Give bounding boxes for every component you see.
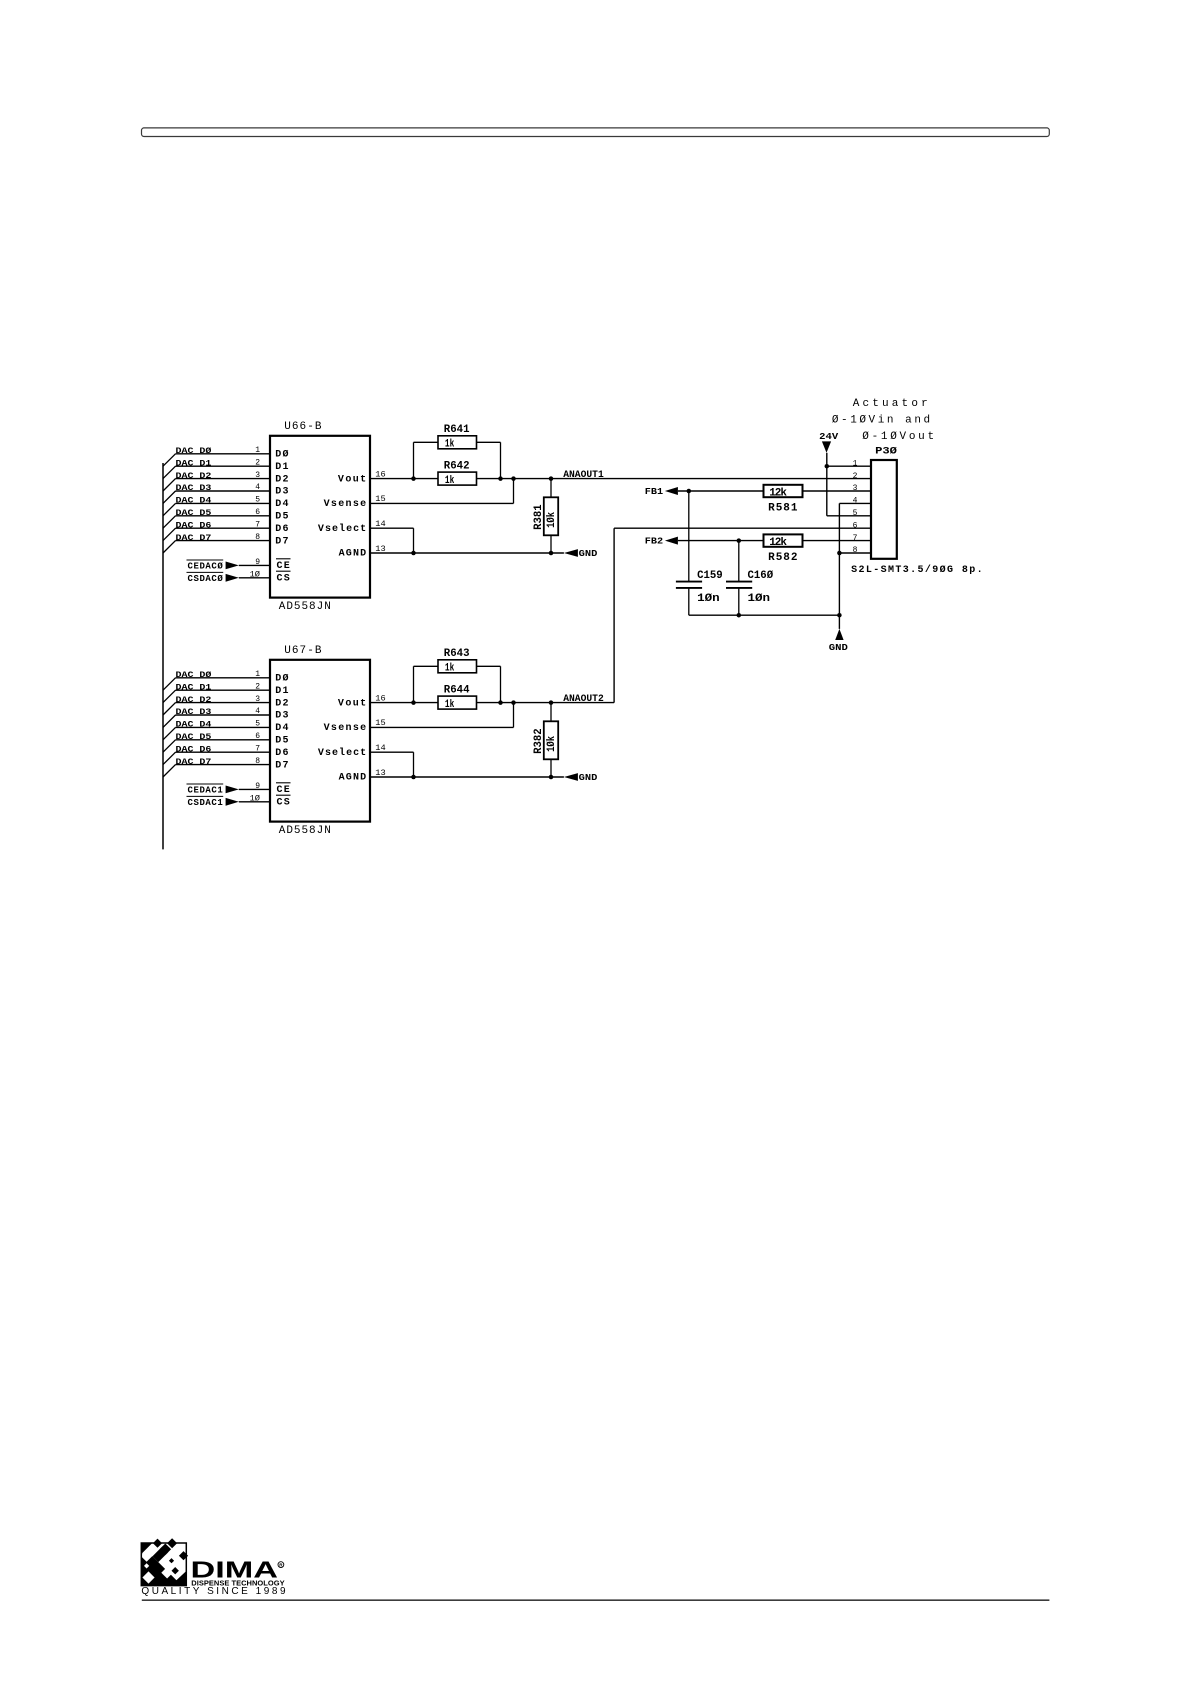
svg-text:8: 8 bbox=[255, 533, 260, 542]
label R582 bbox=[768, 552, 797, 564]
net label CSDAC&#216; with overbar bbox=[187, 572, 224, 584]
svg-text:DAC_D4: DAC_D4 bbox=[176, 497, 212, 506]
annotation: Actuator bbox=[853, 398, 928, 410]
wire CSDAC&#216; to U66-B bbox=[239, 577, 270, 579]
pin name Vout of U66-B bbox=[338, 474, 366, 485]
svg-text:CEDACØ: CEDACØ bbox=[188, 562, 224, 572]
pin name CE (active low) of U66-B bbox=[276, 559, 291, 572]
supply label 24V bbox=[819, 431, 838, 442]
net label FB2 bbox=[645, 537, 663, 547]
wire CEDAC1 to U67-B bbox=[239, 788, 270, 790]
pin name D1 of U67-B bbox=[275, 686, 288, 697]
svg-text:1: 1 bbox=[255, 670, 260, 679]
wire net DAC_D5 to U67-B pin 6 bbox=[176, 739, 271, 741]
junction dot FB2 / C160 bbox=[737, 538, 742, 543]
pin name D4 of U67-B bbox=[275, 723, 288, 734]
GND rail wire under capacitors bbox=[689, 614, 840, 616]
pin number 7 of U67-B bbox=[255, 744, 260, 753]
net label DAC_D0 bbox=[176, 447, 212, 456]
pin number 3 of U66-B bbox=[255, 471, 260, 480]
svg-text:9: 9 bbox=[255, 782, 260, 791]
svg-text:R642: R642 bbox=[444, 460, 470, 472]
wire net FB1 from P30 pin 3 bbox=[678, 490, 871, 492]
resistor R643 1k bbox=[438, 660, 477, 673]
svg-text:DAC_D7: DAC_D7 bbox=[176, 534, 212, 543]
svg-text:P3Ø: P3Ø bbox=[875, 445, 897, 457]
wire net DAC_D1 to U67-B pin 2 bbox=[176, 689, 271, 691]
wire net FB2 from P30 pin 7 bbox=[678, 540, 871, 542]
net label DAC_D6 bbox=[176, 745, 212, 754]
svg-text:DAC_D2: DAC_D2 bbox=[176, 696, 212, 705]
pin name Vsense of U67-B bbox=[324, 723, 367, 734]
svg-text:R644: R644 bbox=[444, 684, 470, 696]
svg-text:R381: R381 bbox=[533, 504, 545, 530]
label C160 bbox=[748, 570, 774, 582]
label R381 bbox=[533, 504, 545, 530]
wire net DAC_D6 to U66-B pin 7 bbox=[176, 527, 271, 529]
pin number 5 of U66-B bbox=[255, 496, 260, 505]
svg-text:1: 1 bbox=[255, 446, 260, 455]
IC U66-B value label AD558JN bbox=[279, 601, 331, 613]
24V supply arrow symbol bbox=[822, 441, 831, 452]
pin number 4 of U67-B bbox=[255, 707, 260, 716]
svg-text:DAC_D1: DAC_D1 bbox=[176, 459, 212, 468]
svg-text:7: 7 bbox=[255, 520, 260, 529]
bus entry diagonals for U67-B data wires bbox=[163, 678, 176, 777]
value 1k of R643 bbox=[445, 662, 455, 674]
connector P30 body bbox=[871, 460, 897, 559]
wire risers connecting R641 in parallel bbox=[414, 442, 501, 478]
svg-text:DØ: DØ bbox=[275, 673, 288, 685]
svg-text:CE: CE bbox=[277, 561, 290, 572]
FB2 net arrow bbox=[665, 537, 678, 545]
GND net label at U67-B AGND bbox=[579, 773, 598, 783]
pin number 9 of U67-B bbox=[255, 782, 260, 791]
svg-text:CS: CS bbox=[277, 798, 290, 809]
svg-text:D3: D3 bbox=[275, 711, 288, 722]
label R382 bbox=[533, 728, 545, 754]
wire net DAC_D2 to U67-B pin 3 bbox=[176, 702, 271, 704]
svg-text:Vout: Vout bbox=[338, 474, 366, 485]
svg-text:4: 4 bbox=[853, 497, 858, 506]
wire risers for R381 between ANAOUT1 and AGND bbox=[550, 479, 552, 553]
junction dot FB1 / C159 bbox=[687, 489, 692, 494]
pin number 13 of U67-B bbox=[375, 769, 386, 778]
svg-text:DAC_D3: DAC_D3 bbox=[176, 708, 212, 717]
svg-text:1Øn: 1Øn bbox=[697, 593, 720, 605]
pin number 3 of U67-B bbox=[255, 695, 260, 704]
svg-text:CSDAC1: CSDAC1 bbox=[188, 798, 224, 808]
pin name Vout of U67-B bbox=[338, 698, 366, 709]
svg-text:6: 6 bbox=[255, 732, 260, 741]
pin number 15 of U66-B bbox=[375, 495, 386, 504]
bus entry diagonals for U66-B data wires bbox=[163, 454, 176, 553]
pin number 1 of U66-B bbox=[255, 446, 260, 455]
wire 24V supply to P30 pins 1,5 bbox=[827, 453, 871, 516]
svg-text:ANAOUT2: ANAOUT2 bbox=[563, 694, 604, 705]
svg-text:3: 3 bbox=[853, 484, 858, 493]
value 1&#216;n of C160 bbox=[748, 593, 771, 605]
wire risers for R382 between ANAOUT2 and AGND bbox=[550, 703, 552, 777]
svg-text:DAC_D6: DAC_D6 bbox=[176, 521, 212, 530]
capacitor C160 10n (FB2 to GND rail) bbox=[726, 541, 752, 616]
svg-text:QUALITY SINCE 1989: QUALITY SINCE 1989 bbox=[141, 1586, 286, 1597]
pin number 7 of P30 bbox=[853, 534, 858, 543]
value 1k of R642 bbox=[445, 475, 455, 487]
pin number 6 of P30 bbox=[853, 521, 858, 530]
GND net arrow at U66-B AGND bbox=[564, 549, 578, 557]
svg-text:7: 7 bbox=[255, 744, 260, 753]
GND net arrow at U67-B AGND bbox=[564, 773, 578, 781]
svg-text:GND: GND bbox=[579, 549, 598, 559]
input arrow for CSDAC&#216; bbox=[226, 574, 239, 582]
net label DAC_D3 bbox=[176, 484, 212, 493]
registered trademark symbol bbox=[278, 1562, 284, 1568]
wire CEDAC&#216; to U66-B bbox=[239, 564, 270, 566]
wire U67-B AGND to GND bbox=[370, 776, 564, 778]
svg-text:Vselect: Vselect bbox=[318, 747, 366, 759]
junction dots on ANAOUT1 wire bbox=[411, 476, 553, 481]
net label DAC_D0 bbox=[176, 671, 212, 680]
svg-text:C159: C159 bbox=[697, 570, 723, 582]
resistor R641 1k bbox=[438, 436, 477, 449]
pin number 2 of U67-B bbox=[255, 682, 260, 691]
annotation: 0-10Vout bbox=[862, 431, 934, 443]
annotation: 0-10Vin and bbox=[832, 415, 930, 427]
net label DAC_D1 bbox=[176, 459, 212, 468]
svg-text:U67-B: U67-B bbox=[284, 645, 322, 657]
svg-text:R581: R581 bbox=[768, 502, 798, 514]
wire net DAC_D0 to U66-B pin 1 bbox=[176, 453, 271, 455]
svg-text:AD558JN: AD558JN bbox=[279, 601, 331, 613]
svg-text:3: 3 bbox=[255, 471, 260, 480]
svg-text:DAC_D5: DAC_D5 bbox=[176, 733, 212, 742]
net label CEDAC1 with overbar bbox=[187, 784, 224, 796]
capacitor C159 10n (FB1 to GND rail) bbox=[676, 491, 702, 615]
net label DAC_D1 bbox=[176, 683, 212, 692]
data bus DAC_D[0..7] vertical bus line bbox=[162, 463, 164, 849]
svg-text:D5: D5 bbox=[275, 512, 288, 523]
svg-text:Ø-1ØVin and: Ø-1ØVin and bbox=[832, 415, 930, 427]
pin name Vselect of U67-B bbox=[318, 747, 366, 759]
svg-text:DAC_DØ: DAC_DØ bbox=[176, 671, 212, 680]
footer rule bbox=[142, 1599, 1050, 1601]
svg-text:6: 6 bbox=[255, 508, 260, 517]
svg-text:Vsense: Vsense bbox=[324, 499, 367, 510]
pin number 1 of U67-B bbox=[255, 670, 260, 679]
svg-text:1Ø: 1Ø bbox=[250, 794, 261, 803]
connector label P30 bbox=[875, 445, 897, 457]
pin number 6 of U67-B bbox=[255, 732, 260, 741]
net label DAC_D4 bbox=[176, 721, 212, 730]
svg-text:DAC_D6: DAC_D6 bbox=[176, 745, 212, 754]
IC U67-B name label bbox=[284, 645, 322, 657]
wire net DAC_D7 to U67-B pin 8 bbox=[176, 764, 271, 766]
pin number 13 of U66-B bbox=[375, 545, 386, 554]
svg-text:7: 7 bbox=[853, 534, 858, 543]
svg-text:Ø-1ØVout: Ø-1ØVout bbox=[862, 431, 934, 443]
wire net ANAOUT1 from U66-B Vout bbox=[370, 478, 871, 480]
svg-text:D5: D5 bbox=[275, 736, 288, 747]
svg-text:GND: GND bbox=[579, 773, 598, 783]
svg-text:DAC_D4: DAC_D4 bbox=[176, 721, 212, 730]
wire GND riser: P30 pins 4,8 to GND symbol bbox=[839, 503, 871, 629]
svg-text:D7: D7 bbox=[275, 536, 288, 547]
wire net DAC_D6 to U67-B pin 7 bbox=[176, 751, 271, 753]
svg-text:8: 8 bbox=[853, 546, 858, 555]
net label DAC_D7 bbox=[176, 534, 212, 543]
svg-text:1k: 1k bbox=[445, 475, 455, 487]
svg-text:2: 2 bbox=[255, 682, 260, 691]
pin name AGND of U67-B bbox=[339, 773, 367, 784]
pin name D3 of U66-B bbox=[275, 487, 288, 498]
wire U66-B Vselect to AGND net bbox=[370, 528, 414, 553]
pin name D2 of U67-B bbox=[275, 698, 288, 709]
svg-text:R641: R641 bbox=[444, 424, 470, 436]
pin name D0 of U66-B bbox=[275, 449, 288, 461]
wire net DAC_D3 to U66-B pin 4 bbox=[176, 490, 271, 492]
pin number 4 of P30 bbox=[853, 497, 858, 506]
pin name AGND of U66-B bbox=[339, 549, 367, 560]
svg-text:R582: R582 bbox=[768, 552, 797, 564]
svg-text:8: 8 bbox=[255, 757, 260, 766]
svg-text:D1: D1 bbox=[275, 462, 288, 473]
pin name D6 of U66-B bbox=[275, 524, 288, 535]
svg-text:DAC_D1: DAC_D1 bbox=[176, 683, 212, 692]
svg-text:D2: D2 bbox=[275, 698, 288, 709]
svg-text:CE: CE bbox=[277, 785, 290, 796]
svg-text:D3: D3 bbox=[275, 487, 288, 498]
svg-text:D4: D4 bbox=[275, 499, 288, 510]
pin number 5 of U67-B bbox=[255, 720, 260, 729]
value 1k of R644 bbox=[445, 699, 455, 711]
junction dots on AGND wire bbox=[411, 551, 553, 556]
svg-text:D2: D2 bbox=[275, 474, 288, 485]
svg-text:AD558JN: AD558JN bbox=[279, 825, 331, 837]
FB1 net arrow bbox=[665, 487, 678, 495]
net label CEDAC&#216; with overbar bbox=[187, 560, 224, 572]
pin name D6 of U67-B bbox=[275, 748, 288, 759]
net label ANAOUT2 bbox=[563, 694, 604, 705]
input arrow for CEDAC1 bbox=[226, 786, 239, 794]
value 12k of R581 bbox=[769, 487, 787, 499]
pin number 1&#216; of U66-B bbox=[250, 570, 261, 579]
svg-text:4: 4 bbox=[255, 707, 260, 716]
pin name D5 of U67-B bbox=[275, 736, 288, 747]
resistor R382 10k bbox=[544, 721, 558, 759]
net label CSDAC1 with overbar bbox=[187, 796, 224, 808]
svg-text:CEDAC1: CEDAC1 bbox=[188, 786, 224, 796]
connector type label S2L-SMT3.5/90G 8p. bbox=[851, 564, 983, 576]
GND net label at U66-B AGND bbox=[579, 549, 598, 559]
svg-text:DAC_D3: DAC_D3 bbox=[176, 484, 212, 493]
net label DAC_D5 bbox=[176, 733, 212, 742]
pin number 2 of U66-B bbox=[255, 458, 260, 467]
junction dot P30 pin 8 / GND riser bbox=[837, 551, 842, 556]
svg-text:R382: R382 bbox=[533, 728, 545, 754]
svg-text:R643: R643 bbox=[444, 648, 470, 660]
DIMA slogan QUALITY SINCE 1989 bbox=[141, 1586, 286, 1597]
net label DAC_D2 bbox=[176, 696, 212, 705]
value 1&#216;n of C159 bbox=[697, 593, 720, 605]
svg-text:5: 5 bbox=[255, 720, 260, 729]
pin number 4 of U66-B bbox=[255, 483, 260, 492]
svg-text:12k: 12k bbox=[769, 487, 787, 499]
svg-text:4: 4 bbox=[255, 483, 260, 492]
svg-text:DAC_D7: DAC_D7 bbox=[176, 758, 212, 767]
wire net DAC_D0 to U67-B pin 1 bbox=[176, 677, 271, 679]
junction dot P30 pin 1 / 24V riser bbox=[825, 464, 830, 469]
svg-text:FB2: FB2 bbox=[645, 537, 663, 547]
svg-text:DØ: DØ bbox=[275, 449, 288, 461]
IC U66-B (upper DAC) body bbox=[270, 436, 370, 598]
pin number 14 of U67-B bbox=[375, 744, 386, 753]
pin name Vsense of U66-B bbox=[324, 499, 367, 510]
net label DAC_D3 bbox=[176, 708, 212, 717]
net label DAC_D7 bbox=[176, 758, 212, 767]
svg-text:1k: 1k bbox=[445, 699, 455, 711]
svg-text:U66-B: U66-B bbox=[284, 421, 322, 433]
junction dots on GND rail bbox=[737, 613, 842, 618]
net label ANAOUT1 bbox=[563, 470, 604, 481]
resistor R381 10k bbox=[544, 497, 558, 535]
pin number 8 of U67-B bbox=[255, 757, 260, 766]
svg-text:D1: D1 bbox=[275, 686, 288, 697]
svg-text:Actuator: Actuator bbox=[853, 398, 928, 410]
svg-text:6: 6 bbox=[853, 521, 858, 530]
input arrow for CSDAC1 bbox=[226, 798, 239, 806]
pin number 8 of U66-B bbox=[255, 533, 260, 542]
resistor R642 1k (series in ANAOUT1) bbox=[438, 472, 477, 485]
DIMA tagline DISPENSE TECHNOLOGY bbox=[191, 1578, 284, 1587]
wire CSDAC1 to U67-B bbox=[239, 801, 270, 803]
svg-text:CSDACØ: CSDACØ bbox=[188, 574, 224, 584]
pin number 5 of P30 bbox=[853, 509, 858, 518]
wire net DAC_D3 to U67-B pin 4 bbox=[176, 714, 271, 716]
label R644 bbox=[444, 684, 470, 696]
svg-text:Vout: Vout bbox=[338, 698, 366, 709]
DIMA wordmark bbox=[191, 1557, 279, 1583]
svg-text:1Øn: 1Øn bbox=[748, 593, 771, 605]
svg-text:1: 1 bbox=[853, 459, 858, 468]
svg-text:1Øk: 1Øk bbox=[546, 736, 558, 752]
pin number 1 of P30 bbox=[853, 459, 858, 468]
svg-text:Vselect: Vselect bbox=[318, 523, 366, 535]
svg-text:5: 5 bbox=[255, 496, 260, 505]
header rule bar bbox=[142, 128, 1050, 137]
input arrow for CEDAC&#216; bbox=[226, 562, 239, 570]
pin number 2 of P30 bbox=[853, 472, 858, 481]
pin name D4 of U66-B bbox=[275, 499, 288, 510]
svg-text:S2L-SMT3.5/9ØG 8p.: S2L-SMT3.5/9ØG 8p. bbox=[851, 564, 983, 576]
svg-text:9: 9 bbox=[255, 558, 260, 567]
label R581 bbox=[768, 502, 798, 514]
value 1&#216;k of R381 bbox=[546, 512, 558, 528]
wire risers connecting R643 in parallel bbox=[414, 666, 501, 702]
svg-text:FB1: FB1 bbox=[645, 487, 664, 497]
wire net DAC_D4 to U67-B pin 5 bbox=[176, 726, 271, 728]
net label DAC_D6 bbox=[176, 521, 212, 530]
net label DAC_D4 bbox=[176, 497, 212, 506]
svg-text:DAC_D5: DAC_D5 bbox=[176, 509, 212, 518]
pin number 8 of P30 bbox=[853, 546, 858, 555]
svg-text:ANAOUT1: ANAOUT1 bbox=[563, 470, 604, 481]
label C159 bbox=[697, 570, 723, 582]
svg-text:D4: D4 bbox=[275, 723, 288, 734]
svg-text:1k: 1k bbox=[445, 662, 455, 674]
pin number 1&#216; of U67-B bbox=[250, 794, 261, 803]
label R641 bbox=[444, 424, 470, 436]
ground symbol GND bbox=[835, 629, 843, 640]
wire net DAC_D5 to U66-B pin 6 bbox=[176, 515, 271, 517]
svg-text:AGND: AGND bbox=[339, 773, 367, 784]
pin name D2 of U66-B bbox=[275, 474, 288, 485]
wire net DAC_D7 to U66-B pin 8 bbox=[176, 540, 271, 542]
wire U67-B Vselect to AGND net bbox=[370, 752, 414, 777]
resistor R581 12k (series in FB1) bbox=[764, 485, 803, 497]
value 1&#216;k of R382 bbox=[546, 736, 558, 752]
pin number 7 of U66-B bbox=[255, 520, 260, 529]
svg-text:D6: D6 bbox=[275, 524, 288, 535]
wire U66-B Vsense feedback to ANAOUT1 bbox=[370, 479, 514, 504]
wire net DAC_D4 to U66-B pin 5 bbox=[176, 502, 271, 504]
svg-text:CS: CS bbox=[277, 574, 290, 585]
svg-text:D7: D7 bbox=[275, 760, 288, 771]
svg-text:5: 5 bbox=[853, 509, 858, 518]
wire net DAC_D1 to U66-B pin 2 bbox=[176, 465, 271, 467]
wire U66-B AGND to GND bbox=[370, 552, 564, 554]
net label FB1 bbox=[645, 487, 664, 497]
IC U67-B (lower DAC) body bbox=[270, 660, 370, 822]
svg-text:3: 3 bbox=[255, 695, 260, 704]
svg-text:1Ø: 1Ø bbox=[250, 570, 261, 579]
svg-text:Vsense: Vsense bbox=[324, 723, 367, 734]
pin name D0 of U67-B bbox=[275, 673, 288, 685]
wire U67-B Vsense feedback to ANAOUT2 bbox=[370, 703, 514, 728]
net label DAC_D2 bbox=[176, 472, 212, 481]
resistor R644 1k (series in ANAOUT2) bbox=[438, 696, 477, 709]
junction dots on ANAOUT2 wire bbox=[411, 700, 553, 705]
svg-text:GND: GND bbox=[829, 643, 849, 653]
resistor R582 12k (series in FB2) bbox=[764, 534, 803, 546]
wire net ANAOUT2 from U67-B Vout bbox=[370, 702, 614, 704]
svg-text:1Øk: 1Øk bbox=[546, 512, 558, 528]
ground label GND bbox=[829, 643, 849, 653]
svg-text:2: 2 bbox=[255, 458, 260, 467]
IC U66-B name label bbox=[284, 421, 322, 433]
pin name D7 of U67-B bbox=[275, 760, 288, 771]
net label DAC_D5 bbox=[176, 509, 212, 518]
pin name D1 of U66-B bbox=[275, 462, 288, 473]
pin number 9 of U66-B bbox=[255, 558, 260, 567]
pin name Vselect of U66-B bbox=[318, 523, 366, 535]
svg-text:24V: 24V bbox=[819, 431, 838, 442]
svg-text:12k: 12k bbox=[769, 537, 787, 549]
label R642 bbox=[444, 460, 470, 472]
IC U67-B value label AD558JN bbox=[279, 825, 331, 837]
svg-text:2: 2 bbox=[853, 472, 858, 481]
wire net ANAOUT2 riser to P30 pin 6 bbox=[614, 528, 871, 702]
svg-text:1k: 1k bbox=[445, 438, 455, 450]
pin number 16 of U67-B bbox=[375, 694, 386, 703]
pin number 14 of U66-B bbox=[375, 520, 386, 529]
wire net DAC_D2 to U66-B pin 3 bbox=[176, 478, 271, 480]
pin number 6 of U66-B bbox=[255, 508, 260, 517]
label R643 bbox=[444, 648, 470, 660]
pin name CS (active low) of U67-B bbox=[276, 795, 291, 808]
svg-text:C16Ø: C16Ø bbox=[748, 570, 774, 582]
svg-text:D6: D6 bbox=[275, 748, 288, 759]
